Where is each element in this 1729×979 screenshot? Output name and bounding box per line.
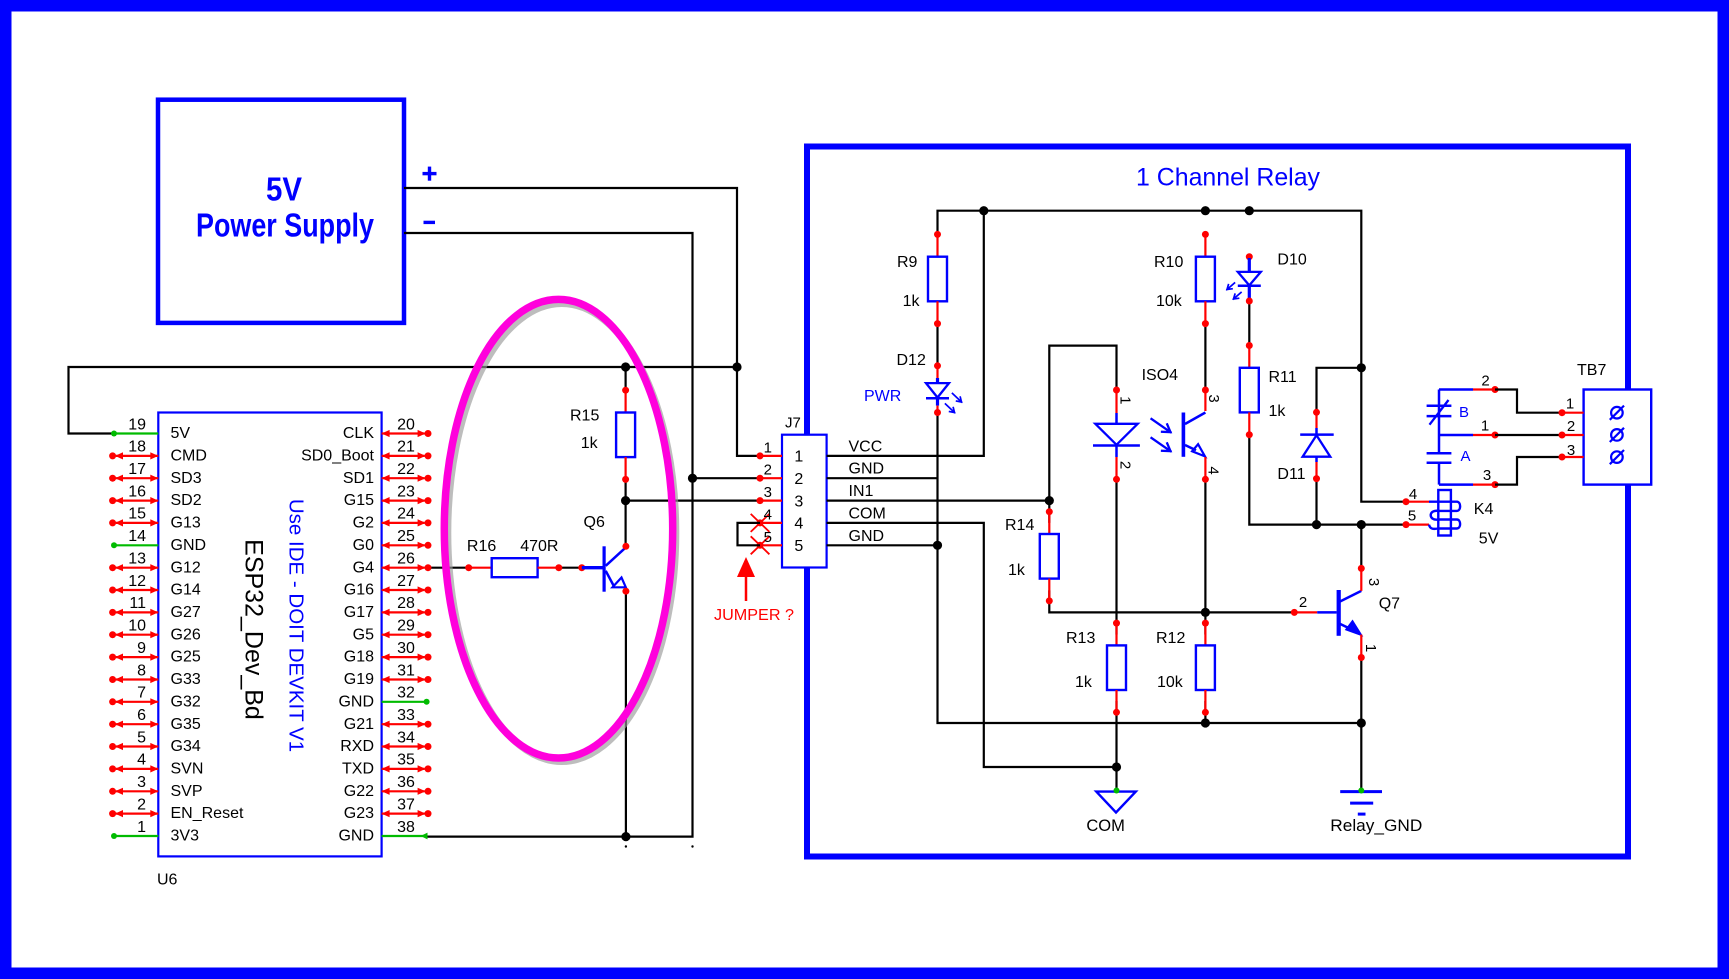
wire: D11 bottom to rail xyxy=(1315,479,1317,525)
junction: COM node xyxy=(1112,762,1121,771)
wire: R15 bottom to IN1 node xyxy=(624,478,626,501)
ESP32 pin 9 (G25) xyxy=(109,640,201,666)
Q7 pin number 3 xyxy=(1365,578,1382,586)
highlight ellipse (magenta) xyxy=(444,299,676,761)
svg-text:J7: J7 xyxy=(785,415,801,432)
contact lead pin 1 (middle) xyxy=(1439,418,1499,439)
svg-text:G13: G13 xyxy=(171,515,201,532)
wire: R10 bottom to ISO4 collector xyxy=(1204,323,1206,390)
svg-text:28: 28 xyxy=(397,595,415,612)
junction: IN1/R14 node xyxy=(1045,496,1054,505)
wire: R15 top stub net xyxy=(624,367,626,390)
svg-text:2: 2 xyxy=(1116,461,1133,469)
relay contact A (NO) xyxy=(1427,448,1471,485)
svg-text:3: 3 xyxy=(794,493,803,510)
svg-text:G23: G23 xyxy=(344,805,374,822)
svg-text:G25: G25 xyxy=(171,649,201,666)
ESP32 pin 15 (G13) xyxy=(109,506,201,532)
junction: Q7 collector at coil return rail xyxy=(1357,520,1366,529)
junction: R15 top on 5V rail xyxy=(621,362,630,371)
wire: D12 cathode to GND rail down/bottom rail xyxy=(938,413,1362,724)
svg-text:21: 21 xyxy=(397,439,415,456)
junction: R12/ISO4 emitter at base rail xyxy=(1201,608,1210,617)
svg-text:SD2: SD2 xyxy=(171,492,202,509)
ISO4 pin number 1 xyxy=(1116,396,1133,404)
ground symbol Relay_GND xyxy=(1330,788,1422,836)
svg-text:ESP32_Dev_Bd: ESP32_Dev_Bd xyxy=(240,539,268,720)
label: + terminal xyxy=(423,167,437,181)
svg-text:A: A xyxy=(1461,448,1471,465)
TB7 pin 1 stub xyxy=(1559,396,1584,417)
svg-text:33: 33 xyxy=(397,707,415,724)
svg-text:2: 2 xyxy=(1567,418,1575,435)
ESP32 pin 33 (G21) xyxy=(344,707,432,733)
transistor Q7 xyxy=(1291,565,1400,661)
ESP32 pin 31 (G19) xyxy=(344,662,432,688)
svg-text:1k: 1k xyxy=(1075,674,1093,691)
junction: Q7 emitter at GND rail xyxy=(1357,718,1366,727)
svg-text:G16: G16 xyxy=(344,582,374,599)
junction: D11 at coil return rail xyxy=(1312,520,1321,529)
wire: R13 bottom to COM node xyxy=(1115,701,1117,767)
ESP32 pin 34 (RXD) xyxy=(340,729,431,755)
svg-text:G14: G14 xyxy=(171,582,201,599)
svg-text:18: 18 xyxy=(128,439,146,456)
wire: D11 top branch xyxy=(1317,368,1362,413)
svg-text:3: 3 xyxy=(137,774,146,791)
wire: +5V from power supply to J7 VCC xyxy=(404,188,760,456)
ESP32 pin 16 (SD2) xyxy=(109,483,202,509)
label: - terminal xyxy=(424,221,436,224)
svg-text:GND: GND xyxy=(171,537,207,554)
wire: R12 top stub xyxy=(1204,612,1206,634)
wire: IN1 node down to Q6 collector xyxy=(624,501,626,546)
relay contact B (NC) xyxy=(1427,390,1469,454)
diode D11 xyxy=(1277,409,1333,483)
wire: contact pin3 to TB7 pin3 xyxy=(1495,457,1562,485)
ESP32 pin 7 (G32) xyxy=(109,685,201,711)
ESP32 pin 10 (G26) xyxy=(109,618,201,644)
ESP32 pin 5 (G34) xyxy=(109,729,201,755)
net label COM xyxy=(849,505,886,522)
Q7 pin number 2 xyxy=(1299,594,1307,611)
ESP32 pin 14 (GND) xyxy=(111,528,206,554)
svg-text:14: 14 xyxy=(128,528,146,545)
svg-text:G22: G22 xyxy=(344,783,374,800)
LED D10 xyxy=(1227,252,1307,305)
svg-text:38: 38 xyxy=(397,819,415,836)
svg-text:23: 23 xyxy=(397,483,415,500)
wire: J7 VCC to relay top rail xyxy=(827,211,984,456)
svg-text:G12: G12 xyxy=(171,559,201,576)
svg-text:B: B xyxy=(1459,404,1469,421)
svg-text:G34: G34 xyxy=(171,738,201,755)
junction: GND at J7 pin5 line xyxy=(933,541,942,550)
svg-text:16: 16 xyxy=(128,483,146,500)
stray dot left xyxy=(625,845,627,847)
svg-text:31: 31 xyxy=(397,662,415,679)
svg-text:1: 1 xyxy=(1116,396,1133,404)
wire: IN1 up-and-over to ISO4 anode xyxy=(1049,346,1116,523)
svg-text:GND: GND xyxy=(849,461,885,478)
svg-text:G0: G0 xyxy=(353,537,374,554)
svg-text:8: 8 xyxy=(137,662,146,679)
ESP32 pin 35 (TXD) xyxy=(342,752,432,778)
svg-text:4: 4 xyxy=(137,752,146,769)
svg-text:COM: COM xyxy=(849,505,886,522)
svg-text:2: 2 xyxy=(137,796,146,813)
svg-text:SVN: SVN xyxy=(171,761,204,778)
ESP32 pin 25 (G0) xyxy=(353,528,432,554)
terminal block TB7 xyxy=(1577,362,1651,485)
wire: rail to Q7 collector xyxy=(1360,525,1362,569)
svg-text:7: 7 xyxy=(137,685,146,702)
svg-text:5: 5 xyxy=(794,538,803,555)
svg-text:1k: 1k xyxy=(581,435,599,452)
svg-text:30: 30 xyxy=(397,640,415,657)
svg-text:5: 5 xyxy=(137,729,146,746)
svg-text:Q6: Q6 xyxy=(584,514,605,531)
ISO4 pin number 4 xyxy=(1204,466,1221,474)
annotation: JUMPER ? xyxy=(714,607,794,624)
wire: J7 COM into relay xyxy=(827,523,1117,767)
svg-text:1: 1 xyxy=(1481,418,1489,435)
svg-text:GND: GND xyxy=(338,693,374,710)
wire: D10 net / R11 net xyxy=(1248,301,1250,344)
wire: GND from power supply down and across bottom xyxy=(404,233,693,837)
ESP32 pin 36 (G22) xyxy=(344,774,432,800)
resistor R9 xyxy=(897,231,947,327)
ISO4 pin number 2 xyxy=(1116,461,1133,469)
J7 pin 1 stub xyxy=(757,439,783,459)
svg-text:D10: D10 xyxy=(1277,252,1306,269)
svg-text:2: 2 xyxy=(1299,594,1307,611)
svg-text:15: 15 xyxy=(128,506,146,523)
svg-text:2: 2 xyxy=(794,471,803,488)
svg-text:TB7: TB7 xyxy=(1577,362,1606,379)
svg-text:ISO4: ISO4 xyxy=(1142,367,1179,384)
wire: ESP32 G4 pin to R16 xyxy=(427,567,469,569)
svg-text:4: 4 xyxy=(794,516,803,533)
wire: Q7 base rail xyxy=(1049,590,1294,612)
svg-text:R10: R10 xyxy=(1154,254,1183,271)
svg-text:Use IDE - DOIT DEVKIT V1: Use IDE - DOIT DEVKIT V1 xyxy=(285,499,308,752)
svg-text:G18: G18 xyxy=(344,649,374,666)
svg-text:1k: 1k xyxy=(1008,562,1026,579)
svg-text:R9: R9 xyxy=(897,254,918,271)
ESP32 pin 32 (GND) xyxy=(338,685,429,711)
svg-text:Relay_GND: Relay_GND xyxy=(1330,817,1422,835)
svg-text:1: 1 xyxy=(794,449,803,466)
ESP32 pin 26 (G4) xyxy=(353,551,432,577)
svg-text:470R: 470R xyxy=(520,538,558,555)
wire: 5V rail to ESP32 pin19 xyxy=(69,367,738,434)
resistor R15 xyxy=(570,387,635,483)
wire: ISO4 emitter down to Q7 base rail xyxy=(1204,479,1206,612)
wire: Q6 emitter down to bottom GND wire xyxy=(625,592,627,837)
contact lead pin 3 (bottom) xyxy=(1439,467,1499,488)
svg-text:SD3: SD3 xyxy=(171,470,202,487)
svg-text:4: 4 xyxy=(1409,486,1417,503)
svg-text:5: 5 xyxy=(764,529,772,546)
svg-text:G26: G26 xyxy=(171,626,201,643)
svg-text:TXD: TXD xyxy=(342,761,374,778)
svg-text:CMD: CMD xyxy=(171,448,207,465)
ESP32 pin 24 (G2) xyxy=(353,506,432,532)
svg-text:D11: D11 xyxy=(1277,466,1305,483)
svg-text:CLK: CLK xyxy=(343,425,374,442)
resistor R13 xyxy=(1066,620,1126,716)
svg-text:R12: R12 xyxy=(1156,630,1185,647)
svg-text:2: 2 xyxy=(764,462,772,479)
ESP32 pin 29 (G5) xyxy=(353,618,432,644)
svg-text:26: 26 xyxy=(397,551,415,568)
IC U6 ESP32_Dev_Bd module body xyxy=(157,413,382,889)
ESP32 pin 3 (SVP) xyxy=(109,774,202,800)
ESP32 pin 37 (G23) xyxy=(344,796,432,822)
svg-text:3: 3 xyxy=(764,484,772,501)
svg-text:1: 1 xyxy=(1566,396,1574,413)
svg-text:27: 27 xyxy=(397,573,415,590)
svg-text:32: 32 xyxy=(397,685,415,702)
svg-text:4: 4 xyxy=(764,506,772,523)
svg-text:3V3: 3V3 xyxy=(171,828,200,845)
wire: R9 to D12 xyxy=(936,323,938,365)
svg-text:D12: D12 xyxy=(897,352,926,369)
optocoupler ISO4 xyxy=(1093,367,1209,483)
contact lead pin 2 (top) xyxy=(1439,373,1499,394)
svg-text:EN_Reset: EN_Reset xyxy=(171,805,244,822)
J7 pin 4 stub with X xyxy=(751,506,782,532)
ESP32 pin 17 (SD3) xyxy=(109,461,202,487)
svg-text:10k: 10k xyxy=(1157,674,1184,691)
svg-text:13: 13 xyxy=(128,551,146,568)
net label GND xyxy=(849,461,885,478)
svg-text:G33: G33 xyxy=(171,671,201,688)
svg-text:G27: G27 xyxy=(171,604,201,621)
junction: D11 branch at +5V vertical xyxy=(1357,363,1366,372)
svg-text:9: 9 xyxy=(137,640,146,657)
svg-text:3: 3 xyxy=(1483,467,1491,484)
block: 1 Channel Relay box xyxy=(807,147,1628,857)
wire: IN1 node to J7 pin3 xyxy=(626,500,760,502)
ESP32 pin 2 (EN_Reset) xyxy=(109,796,244,822)
svg-text:R11: R11 xyxy=(1269,369,1297,386)
ESP32 pin 28 (G17) xyxy=(344,595,432,621)
resistor R16 xyxy=(465,538,562,577)
svg-text:G35: G35 xyxy=(171,716,201,733)
ESP32 pin 30 (G18) xyxy=(344,640,432,666)
junction: Q6 emitter at bottom GND wire xyxy=(621,832,630,841)
svg-text:VCC: VCC xyxy=(849,438,883,455)
svg-text:4: 4 xyxy=(1204,466,1221,474)
wire: GND branch to J7 pin2 xyxy=(693,477,761,479)
svg-text:R13: R13 xyxy=(1066,630,1095,647)
svg-text:G19: G19 xyxy=(344,671,374,688)
ESP32 pin 38 (GND) xyxy=(338,819,427,845)
net label IN1 xyxy=(849,483,874,500)
svg-text:G21: G21 xyxy=(344,716,374,733)
resistor R11 xyxy=(1240,342,1297,438)
ESP32 pin 18 (CMD) xyxy=(109,439,207,465)
ESP32 pin 27 (G16) xyxy=(344,573,432,599)
J7 pin 5 stub with X xyxy=(751,529,782,555)
svg-text:G4: G4 xyxy=(353,559,374,576)
junction: GND at J7 pin2 xyxy=(688,474,697,483)
svg-text:G2: G2 xyxy=(353,515,374,532)
svg-text:34: 34 xyxy=(397,729,415,746)
wire: J7 IN1 into relay xyxy=(827,500,1050,502)
ESP32 pin 19 (5V) xyxy=(111,416,190,442)
ESP32 pin 12 (G14) xyxy=(109,573,201,599)
svg-text:22: 22 xyxy=(397,461,415,478)
wire: relay +5V top rail xyxy=(938,211,1407,502)
svg-text:R16: R16 xyxy=(467,538,496,555)
svg-text:PWR: PWR xyxy=(864,388,901,405)
svg-text:G15: G15 xyxy=(344,492,374,509)
svg-text:G32: G32 xyxy=(171,693,201,710)
resistor R10 xyxy=(1154,231,1215,327)
svg-text:SD0_Boot: SD0_Boot xyxy=(301,448,374,465)
wire: R16 to Q6 base xyxy=(559,567,582,569)
junction: D10 at top rail xyxy=(1245,206,1254,215)
svg-text:1: 1 xyxy=(764,439,772,456)
svg-text:SD1: SD1 xyxy=(343,470,374,487)
svg-text:COM: COM xyxy=(1086,817,1125,835)
ESP32 pin 23 (G15) xyxy=(344,483,432,509)
ESP32 pin 6 (G35) xyxy=(109,707,201,733)
svg-text:GND: GND xyxy=(338,828,374,845)
svg-text:Power Supply: Power Supply xyxy=(196,206,375,243)
wire: COM node to COM symbol xyxy=(1115,767,1117,791)
svg-text:R15: R15 xyxy=(570,408,599,425)
junction: +5V corner node xyxy=(732,362,741,371)
svg-text:IN1: IN1 xyxy=(849,483,874,500)
relay coil K4 xyxy=(1403,486,1499,548)
wire: contact pin2 to TB7 pin1 xyxy=(1495,390,1562,413)
svg-text:GND: GND xyxy=(849,528,885,545)
ESP32 pin 8 (G33) xyxy=(109,662,201,688)
svg-text:25: 25 xyxy=(397,528,415,545)
svg-text:29: 29 xyxy=(397,618,415,635)
J7 pin 2 stub xyxy=(757,462,783,482)
svg-text:36: 36 xyxy=(397,774,415,791)
wire: Q7 emitter to GND rail and Relay_GND xyxy=(1360,658,1362,791)
block: 5V Power Supply xyxy=(158,100,404,323)
svg-text:5V: 5V xyxy=(266,171,302,208)
stray dot right xyxy=(691,845,693,847)
wire: jumper bracket J7 pin4-pin5 xyxy=(738,523,761,545)
svg-text:5V: 5V xyxy=(1479,531,1499,548)
ESP32 pin 21 (SD0_Boot) xyxy=(301,439,431,465)
svg-text:JUMPER ?: JUMPER ? xyxy=(714,607,794,624)
svg-text:3: 3 xyxy=(1365,578,1382,586)
TB7 pin 3 stub xyxy=(1559,442,1584,461)
junction: R12 bottom at GND rail xyxy=(1201,718,1210,727)
svg-text:37: 37 xyxy=(397,796,415,813)
net label VCC xyxy=(849,438,883,455)
svg-text:3: 3 xyxy=(1567,442,1575,459)
svg-text:U6: U6 xyxy=(157,872,178,889)
svg-text:6: 6 xyxy=(137,707,146,724)
wire: J7 GND pin2 into relay xyxy=(827,477,938,479)
svg-text:11: 11 xyxy=(129,595,146,612)
svg-text:K4: K4 xyxy=(1474,501,1494,518)
ESP32 pin 22 (SD1) xyxy=(343,461,432,487)
ground symbol COM xyxy=(1086,788,1135,836)
svg-text:35: 35 xyxy=(397,752,415,769)
svg-text:Q7: Q7 xyxy=(1379,596,1400,613)
connector J7 xyxy=(782,415,827,568)
wire: J7 GND pin5 into relay xyxy=(827,544,938,546)
svg-text:3: 3 xyxy=(1205,394,1222,402)
svg-text:G17: G17 xyxy=(344,604,374,621)
ESP32 pin 20 (CLK) xyxy=(343,416,432,442)
ESP32 pin 1 (3V3) xyxy=(111,819,199,845)
svg-text:24: 24 xyxy=(397,506,415,523)
junction: node R15/Q6 collector/IN1 xyxy=(621,496,630,505)
ESP32 pin 11 (G27) xyxy=(109,595,201,621)
svg-text:10k: 10k xyxy=(1156,293,1183,310)
junction: VCC vertical at top rail xyxy=(979,206,988,215)
svg-text:1k: 1k xyxy=(1269,403,1287,420)
svg-text:1k: 1k xyxy=(903,293,921,310)
wire: ISO4 cathode down to R13 xyxy=(1115,479,1117,634)
svg-text:RXD: RXD xyxy=(340,738,374,755)
junction: R10 at top rail xyxy=(1201,206,1210,215)
transistor Q6 xyxy=(578,514,629,595)
svg-text:19: 19 xyxy=(128,416,146,433)
wire: R12 bottom stub xyxy=(1204,701,1206,723)
net label GND (pin5) xyxy=(849,528,885,545)
svg-text:1: 1 xyxy=(1362,644,1379,652)
svg-text:12: 12 xyxy=(128,573,146,590)
Q7 pin number 1 xyxy=(1362,644,1379,652)
resistor R14 xyxy=(1005,508,1059,604)
svg-text:5V: 5V xyxy=(171,425,191,442)
LED D12 (PWR) xyxy=(864,352,962,416)
svg-text:10: 10 xyxy=(128,618,146,635)
svg-text:1: 1 xyxy=(137,819,146,836)
ESP32 pin 13 (G12) xyxy=(109,551,201,577)
svg-text:SVP: SVP xyxy=(171,783,203,800)
ESP32 pin 4 (SVN) xyxy=(109,752,203,778)
svg-text:G5: G5 xyxy=(353,626,374,643)
resistor R12 xyxy=(1156,620,1215,716)
wire: contact pin1 to TB7 pin2 xyxy=(1495,434,1562,436)
svg-text:17: 17 xyxy=(128,461,146,478)
svg-text:5: 5 xyxy=(1408,508,1416,525)
annotation: red arrow xyxy=(737,557,755,601)
wire: R11 bottom to coil return rail xyxy=(1249,435,1406,525)
svg-text:2: 2 xyxy=(1481,373,1489,390)
ISO4 pin number 3 xyxy=(1205,394,1222,402)
J7 pin 3 stub xyxy=(757,484,783,504)
svg-text:20: 20 xyxy=(397,416,415,433)
TB7 pin 2 stub xyxy=(1559,418,1584,439)
svg-text:R14: R14 xyxy=(1005,517,1034,534)
svg-text:1 Channel Relay: 1 Channel Relay xyxy=(1136,164,1320,192)
